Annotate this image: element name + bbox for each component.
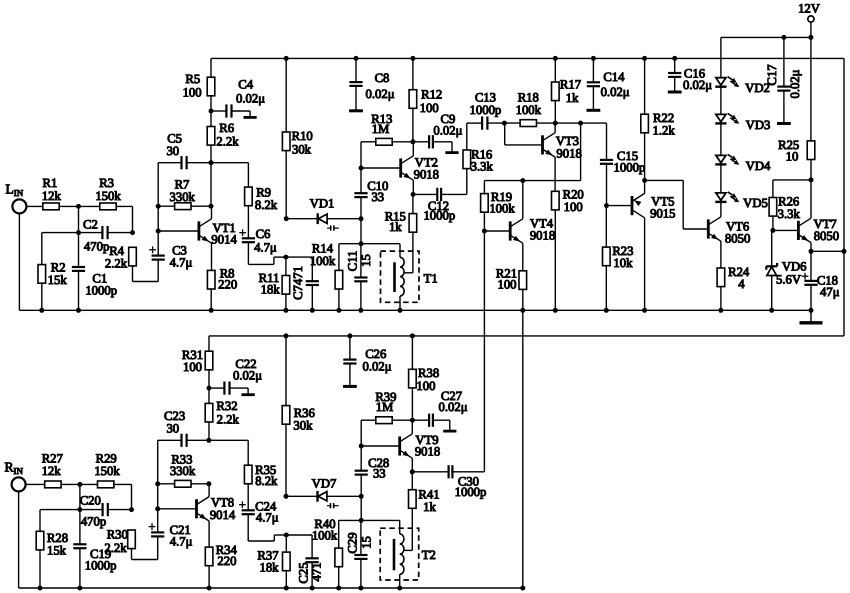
svg-text:150k: 150k — [94, 464, 120, 478]
wire base VT7 — [773, 229, 799, 231]
node — [156, 204, 161, 209]
wire — [360, 520, 362, 555]
wire lower rail — [209, 335, 844, 337]
resistor R37 — [283, 552, 291, 571]
capacitor C26 — [343, 359, 356, 361]
wire — [399, 244, 401, 258]
resistor R30 — [128, 530, 136, 549]
wire — [247, 242, 249, 264]
svg-text:220: 220 — [218, 278, 237, 292]
capacitor C29 — [354, 554, 367, 556]
input terminal Rin — [12, 477, 26, 491]
wire — [720, 241, 722, 268]
resistor R13 — [376, 138, 392, 145]
node — [129, 507, 134, 512]
node — [808, 35, 813, 40]
svg-text:9014: 9014 — [211, 233, 237, 247]
wire — [360, 446, 362, 471]
node — [206, 481, 211, 486]
node — [209, 204, 214, 209]
wire — [720, 165, 722, 193]
svg-text:1k: 1k — [566, 91, 579, 105]
node — [310, 586, 315, 591]
node — [283, 308, 288, 313]
node — [39, 308, 44, 313]
wire — [285, 257, 287, 275]
node — [718, 308, 723, 313]
wire — [285, 58, 287, 132]
node — [359, 494, 364, 499]
svg-text:0.02μ: 0.02μ — [236, 92, 265, 106]
transistor VT2 — [399, 158, 402, 177]
wire — [210, 289, 212, 310]
wire — [211, 110, 226, 112]
capacitor C15 — [600, 159, 613, 161]
transistor VT5 — [631, 196, 634, 215]
resistor R28 — [36, 531, 44, 550]
svg-text:100: 100 — [183, 360, 202, 374]
svg-text:2.2k: 2.2k — [217, 412, 240, 426]
capacitor C5 — [180, 156, 182, 169]
svg-text:0.02μ: 0.02μ — [233, 369, 262, 383]
wire — [412, 142, 414, 156]
svg-text:3.3k: 3.3k — [471, 160, 494, 174]
svg-text:R10: R10 — [292, 129, 313, 143]
node — [354, 56, 359, 61]
capacitor C24 — [242, 509, 255, 511]
wire — [810, 37, 812, 141]
wire — [327, 218, 361, 220]
svg-text:C29: C29 — [346, 532, 360, 553]
capacitor C10 — [354, 192, 367, 194]
wire — [208, 484, 210, 497]
wire riser to lower ground — [522, 310, 524, 588]
wire — [412, 419, 429, 421]
svg-text:C7471: C7471 — [291, 266, 305, 300]
wire — [720, 216, 722, 218]
wire — [42, 232, 79, 234]
node — [502, 121, 507, 126]
capacitor C17 — [777, 85, 790, 87]
svg-text:8.2k: 8.2k — [255, 198, 278, 212]
led VD4 — [716, 155, 726, 162]
svg-text:R3: R3 — [99, 176, 114, 190]
node — [207, 386, 212, 391]
capacitor C13 — [481, 117, 483, 130]
wire — [208, 336, 210, 351]
wire VT7 emitter to border — [811, 250, 844, 252]
wire — [522, 243, 524, 271]
wire — [78, 233, 80, 267]
capacitor C7 — [306, 280, 319, 282]
wire — [554, 157, 556, 191]
svg-text:2.2k: 2.2k — [216, 135, 239, 149]
resistor R2 — [38, 265, 46, 284]
wire right border — [843, 58, 845, 336]
node — [642, 56, 647, 61]
wire — [78, 206, 80, 232]
ground — [445, 151, 458, 154]
resistor R16 — [463, 150, 471, 169]
wire — [592, 58, 594, 82]
diode VD7 — [286, 495, 318, 497]
node — [76, 308, 81, 313]
resistor R34 — [205, 547, 213, 566]
svg-text:R30: R30 — [107, 528, 128, 542]
capacitor C21 — [151, 531, 164, 533]
wire — [810, 285, 812, 311]
wire — [79, 510, 81, 545]
wire — [327, 495, 361, 497]
node — [76, 204, 81, 209]
wire — [209, 387, 224, 389]
ground — [349, 109, 363, 112]
resistor R29 — [98, 481, 114, 488]
wire — [810, 180, 812, 218]
svg-text:R6: R6 — [219, 121, 234, 135]
wire — [674, 58, 676, 73]
resistor R36 — [282, 406, 290, 425]
resistor R24 — [717, 268, 725, 287]
wire — [412, 180, 414, 194]
resistor R31 — [205, 351, 213, 370]
wire — [209, 439, 248, 441]
wire — [411, 420, 413, 434]
wire — [720, 287, 722, 311]
wire — [286, 534, 312, 536]
wire — [158, 439, 182, 441]
ground — [777, 122, 791, 125]
svg-text:10k: 10k — [613, 256, 633, 270]
wire — [411, 458, 413, 472]
svg-text:1000p: 1000p — [85, 283, 117, 297]
capacitor C12 — [436, 188, 438, 201]
node — [284, 216, 289, 221]
wire — [360, 420, 362, 446]
capacitor C30 — [448, 465, 450, 478]
wire — [413, 193, 437, 195]
node — [410, 333, 415, 338]
wire base VT8 — [158, 508, 197, 510]
svg-text:1M: 1M — [376, 400, 394, 414]
svg-text:10: 10 — [786, 150, 799, 164]
resistor R25 — [807, 141, 815, 160]
wire — [810, 160, 812, 180]
wire — [79, 232, 103, 234]
svg-text:R17: R17 — [560, 78, 581, 92]
svg-text:1.2k: 1.2k — [652, 123, 675, 137]
wire — [413, 141, 429, 143]
node — [553, 121, 558, 126]
svg-text:9018: 9018 — [414, 168, 439, 182]
svg-text:9015: 9015 — [650, 207, 675, 221]
resistor R26 — [769, 198, 777, 217]
wire — [41, 233, 43, 265]
node — [336, 308, 341, 313]
node — [553, 308, 558, 313]
wire base VT5 — [607, 205, 633, 207]
resistor R5 — [207, 77, 215, 96]
svg-text:0.02μ: 0.02μ — [433, 123, 462, 137]
capacitor C3 — [152, 255, 165, 257]
wire — [810, 22, 812, 37]
wire — [247, 440, 249, 465]
node — [359, 444, 364, 449]
svg-text:4.7μ: 4.7μ — [170, 535, 193, 549]
transistor VT3 — [541, 135, 544, 154]
node — [209, 308, 214, 313]
wire — [355, 58, 357, 82]
svg-text:100k: 100k — [516, 103, 542, 117]
resistor R12 — [409, 90, 417, 109]
svg-text:9018: 9018 — [415, 445, 440, 459]
transformer T1 — [381, 251, 420, 302]
svg-text:9014: 9014 — [210, 508, 236, 522]
svg-text:100: 100 — [420, 101, 439, 115]
wire — [25, 483, 45, 485]
capacitor C22 — [223, 382, 225, 395]
wire — [360, 142, 362, 168]
svg-text:1M: 1M — [372, 122, 390, 136]
capacitor C9 — [428, 135, 430, 148]
node — [77, 482, 82, 487]
svg-text:100: 100 — [564, 200, 583, 214]
wire base VT9 — [361, 445, 400, 447]
wire — [605, 206, 607, 248]
resistor R32 — [205, 403, 213, 422]
wire — [721, 36, 811, 38]
diode VD1 — [286, 218, 318, 220]
node — [397, 586, 402, 591]
wire — [286, 256, 312, 258]
node — [336, 586, 341, 591]
resistor R38 — [409, 369, 417, 388]
ground — [244, 116, 257, 119]
wire — [285, 336, 287, 406]
wire — [720, 37, 722, 77]
power terminal 12V — [808, 16, 814, 22]
wire — [773, 179, 811, 181]
wire — [772, 180, 774, 198]
node — [770, 228, 775, 233]
capacitor C8 — [349, 81, 362, 83]
wire — [606, 123, 608, 160]
wire — [783, 37, 785, 86]
wire — [349, 336, 351, 360]
svg-text:100: 100 — [183, 85, 202, 99]
svg-text:VD6: VD6 — [782, 259, 807, 273]
svg-text:C17: C17 — [765, 64, 779, 85]
wire — [157, 163, 159, 256]
ground — [343, 385, 357, 388]
wire base VT2 — [361, 167, 401, 169]
svg-text:0.02μ: 0.02μ — [683, 78, 712, 92]
wire — [158, 483, 175, 485]
wire — [18, 213, 20, 310]
wire — [339, 243, 361, 245]
svg-text:4.7μ: 4.7μ — [170, 256, 193, 270]
svg-text:0.02μ: 0.02μ — [365, 87, 394, 101]
svg-text:VD4: VD4 — [746, 159, 771, 173]
svg-text:1k: 1k — [423, 500, 436, 514]
node — [358, 308, 363, 313]
wire — [361, 519, 400, 521]
svg-text:33: 33 — [371, 190, 384, 204]
wire — [360, 244, 362, 278]
svg-text:R4: R4 — [109, 244, 124, 258]
svg-text:47μ: 47μ — [820, 285, 840, 299]
node — [482, 229, 487, 234]
node — [284, 586, 289, 591]
transistor VT8 — [195, 499, 198, 518]
wire — [580, 123, 582, 181]
capacitor C4 — [225, 104, 227, 117]
svg-text:0.02μ: 0.02μ — [601, 85, 630, 99]
wire — [247, 163, 249, 187]
node — [604, 308, 609, 313]
node — [398, 308, 403, 313]
capacitor C14 — [587, 81, 600, 83]
wire riser to C30 — [483, 231, 485, 472]
wire — [522, 289, 524, 310]
capacitor C23 — [180, 434, 182, 447]
wire — [208, 521, 210, 547]
wire — [116, 205, 132, 207]
wire — [466, 169, 468, 195]
wire — [114, 483, 132, 485]
wire — [131, 549, 133, 560]
wire — [361, 243, 400, 245]
node — [76, 230, 81, 235]
resistor R9 — [245, 187, 253, 206]
capacitor C6 — [242, 237, 255, 239]
node — [520, 308, 525, 313]
resistor R15 — [409, 214, 417, 233]
wire — [554, 123, 556, 133]
resistor R22 — [641, 114, 649, 133]
svg-text:R32: R32 — [216, 399, 237, 413]
svg-text:100k: 100k — [489, 202, 515, 216]
node — [155, 481, 160, 486]
node — [359, 216, 364, 221]
node — [809, 249, 814, 254]
svg-text:1000p: 1000p — [423, 209, 455, 223]
wire — [26, 205, 43, 207]
svg-text:2.2k: 2.2k — [105, 257, 128, 271]
wire — [311, 257, 313, 281]
wire VT5 to VT6 — [645, 179, 684, 181]
svg-text:R12: R12 — [421, 87, 442, 101]
node — [209, 160, 214, 165]
node — [77, 586, 82, 591]
svg-text:9018: 9018 — [530, 229, 555, 243]
wire +12V rail top — [211, 57, 844, 59]
wire — [158, 162, 181, 164]
led VD3 — [716, 114, 726, 121]
resistor R19 — [481, 194, 489, 213]
wire — [522, 181, 524, 219]
input terminal Lin — [12, 199, 26, 213]
resistor R6 — [207, 127, 215, 146]
svg-text:30: 30 — [166, 144, 179, 158]
svg-text:5.6V: 5.6V — [776, 273, 802, 287]
svg-text:100: 100 — [497, 278, 516, 292]
svg-text:T1: T1 — [424, 272, 438, 286]
node — [809, 177, 814, 182]
svg-text:VD3: VD3 — [746, 118, 771, 132]
wire — [720, 87, 722, 115]
wire — [412, 194, 414, 213]
svg-text:8050: 8050 — [814, 229, 839, 243]
wire base VT3 — [504, 123, 506, 145]
wire — [311, 535, 313, 558]
wire — [40, 509, 103, 511]
capacitor C11 — [354, 276, 367, 278]
svg-text:4: 4 — [738, 277, 745, 291]
capacitor C2 — [101, 226, 103, 239]
svg-text:0.02μ: 0.02μ — [788, 69, 802, 98]
node — [209, 109, 214, 114]
svg-text:C20: C20 — [80, 493, 101, 507]
wire — [338, 520, 340, 548]
svg-text:330k: 330k — [170, 464, 196, 478]
wire — [61, 483, 97, 485]
svg-text:470p: 470p — [84, 239, 109, 253]
resistor R18 — [520, 120, 536, 127]
wire — [399, 574, 401, 588]
node — [604, 203, 609, 208]
zener VD6 — [766, 265, 777, 267]
wire — [208, 422, 210, 440]
led VD5 — [716, 193, 726, 200]
svg-text:12k: 12k — [42, 189, 62, 203]
resistor R4 — [129, 247, 137, 266]
svg-text:2.2k: 2.2k — [104, 541, 127, 555]
resistor R39 — [376, 417, 392, 424]
node — [284, 333, 289, 338]
svg-text:C25: C25 — [297, 562, 311, 583]
node — [284, 494, 289, 499]
wire — [158, 205, 174, 207]
svg-text:C8: C8 — [375, 71, 390, 85]
wire — [157, 440, 159, 532]
wire base VT4 — [484, 230, 510, 232]
resistor R11 — [282, 276, 290, 295]
wire — [399, 520, 401, 534]
svg-text:C11: C11 — [345, 251, 359, 272]
svg-text:1000p: 1000p — [455, 485, 487, 499]
node — [411, 192, 416, 197]
node — [359, 166, 364, 171]
svg-text:VD7: VD7 — [312, 477, 337, 491]
resistor R1 — [43, 203, 59, 210]
ground — [668, 91, 682, 94]
svg-text:1000p: 1000p — [470, 103, 502, 117]
svg-text:T2: T2 — [422, 548, 436, 562]
wire — [339, 519, 361, 521]
transformer T2 — [380, 528, 419, 580]
resistor R23 — [603, 247, 611, 266]
node — [410, 56, 415, 61]
svg-text:8050: 8050 — [725, 232, 750, 246]
wire — [412, 58, 414, 89]
capacitor C1 — [72, 266, 85, 268]
wire — [644, 218, 646, 310]
wire — [285, 424, 287, 496]
wire — [644, 58, 646, 114]
resistor R40 — [335, 548, 343, 567]
node — [347, 333, 352, 338]
